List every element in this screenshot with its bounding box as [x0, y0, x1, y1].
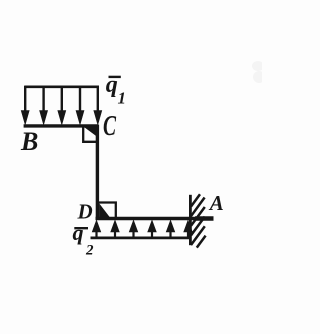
wire: distributed load q2 bottom line [91, 236, 190, 239]
svg-text:C: C [103, 111, 116, 142]
member CD vertical [96, 125, 99, 220]
beam BC [24, 124, 99, 127]
load arrow q2-5 [166, 220, 175, 238]
scan smudge (decorative) [252, 61, 265, 83]
wall hatching [191, 194, 206, 247]
corner fillet at C [84, 127, 99, 138]
label q1 bar [109, 76, 121, 78]
load arrow q1-1 [21, 86, 29, 125]
svg-text:1: 1 [118, 89, 127, 108]
load arrow q1-4 [76, 86, 84, 125]
svg-text:B: B [20, 127, 38, 156]
load arrow q2-3 [129, 220, 138, 238]
load arrow q2-1 [92, 220, 101, 238]
load arrow q1-3 [58, 86, 66, 125]
corner square at D [99, 203, 116, 218]
corner fillet at D [99, 203, 110, 218]
label q2 bar [74, 227, 88, 229]
svg-text:2: 2 [85, 243, 94, 259]
corner square at C [83, 127, 96, 142]
beam DA thick end through wall [195, 216, 214, 221]
svg-text:A: A [208, 191, 224, 215]
load arrow q2-4 [148, 220, 157, 238]
svg-text:q: q [106, 72, 118, 98]
load arrow q2-2 [111, 220, 120, 238]
svg-text:q: q [73, 220, 84, 245]
wire: distributed load q1 top line [24, 86, 99, 89]
beam DA [96, 217, 214, 220]
load arrow q2-6 [184, 220, 193, 238]
load arrow q1-2 [40, 86, 48, 125]
wall support face line [189, 195, 192, 245]
load arrow q1-5 [94, 86, 102, 125]
